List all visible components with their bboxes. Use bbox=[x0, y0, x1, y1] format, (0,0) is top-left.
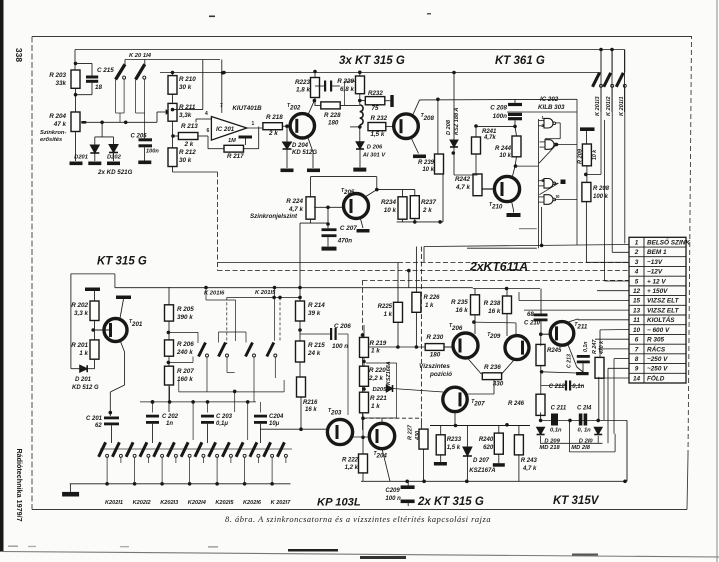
svg-text:7: 7 bbox=[635, 346, 639, 353]
svg-text:R 201: R 201 bbox=[71, 342, 88, 349]
svg-text:6,8 k: 6,8 k bbox=[340, 86, 355, 93]
svg-text:68: 68 bbox=[527, 312, 534, 318]
svg-text:+ 150V: + 150V bbox=[647, 288, 668, 295]
svg-text:D205: D205 bbox=[373, 387, 388, 393]
svg-text:12: 12 bbox=[633, 288, 641, 295]
svg-text:4,7 k: 4,7 k bbox=[288, 206, 304, 213]
svg-text:180: 180 bbox=[430, 352, 441, 359]
svg-text:R 212: R 212 bbox=[179, 149, 196, 156]
svg-text:2x KD 521G: 2x KD 521G bbox=[97, 169, 133, 176]
svg-text:VIZSZ ELT: VIZSZ ELT bbox=[647, 307, 680, 314]
svg-text:10 k: 10 k bbox=[422, 167, 434, 173]
svg-text:2: 2 bbox=[634, 249, 639, 256]
svg-text:1: 1 bbox=[635, 239, 639, 246]
svg-text:208: 208 bbox=[423, 115, 435, 122]
svg-text:R232: R232 bbox=[368, 90, 383, 97]
svg-text:C 211: C 211 bbox=[551, 406, 567, 412]
svg-text:KSZ167A: KSZ167A bbox=[469, 468, 495, 474]
svg-text:2 k: 2 k bbox=[422, 207, 432, 214]
svg-text:R 244: R 244 bbox=[495, 146, 512, 152]
svg-text:R245: R245 bbox=[547, 348, 562, 354]
svg-text:R 305: R 305 bbox=[647, 337, 664, 344]
svg-text:100n: 100n bbox=[146, 149, 159, 155]
svg-text:620: 620 bbox=[483, 445, 494, 451]
svg-text:16 k: 16 k bbox=[456, 307, 469, 314]
svg-text:Szinkronjelszint: Szinkronjelszint bbox=[250, 213, 298, 220]
svg-text:R225: R225 bbox=[378, 304, 393, 310]
svg-text:K202I3: K202I3 bbox=[160, 500, 179, 506]
svg-text:R 230: R 230 bbox=[426, 334, 443, 341]
svg-text:3: 3 bbox=[635, 259, 639, 266]
svg-text:33k: 33k bbox=[55, 80, 66, 87]
svg-text:R234: R234 bbox=[381, 199, 397, 206]
svg-text:AI 301 V: AI 301 V bbox=[362, 153, 387, 159]
svg-text:1,5 k: 1,5 k bbox=[447, 445, 461, 451]
svg-text:C 206: C 206 bbox=[334, 323, 351, 330]
svg-text:R242: R242 bbox=[455, 176, 471, 183]
svg-text:pozíció: pozíció bbox=[429, 371, 452, 378]
svg-text:10 k: 10 k bbox=[384, 207, 397, 214]
svg-text:K 201I2: K 201I2 bbox=[606, 96, 612, 116]
svg-text:C 201: C 201 bbox=[86, 416, 103, 422]
svg-text:KT 315V: KT 315V bbox=[553, 495, 600, 507]
svg-text:C209: C209 bbox=[385, 488, 400, 494]
svg-text:C 202: C 202 bbox=[162, 414, 179, 420]
svg-text:8. ábra. A szinkroncsatorna és: 8. ábra. A szinkroncsatorna és a vízszin… bbox=[225, 515, 491, 524]
svg-text:207: 207 bbox=[473, 401, 485, 408]
svg-text:R 203: R 203 bbox=[49, 72, 66, 79]
svg-text:240 k: 240 k bbox=[176, 349, 193, 356]
svg-text:24 k: 24 k bbox=[307, 350, 321, 357]
svg-text:R 220: R 220 bbox=[369, 367, 386, 374]
svg-text:KD 512G: KD 512G bbox=[292, 150, 317, 156]
svg-text:1: 1 bbox=[252, 121, 255, 127]
svg-text:R 214: R 214 bbox=[308, 302, 325, 309]
svg-text:1n: 1n bbox=[166, 421, 173, 427]
svg-text:~13V: ~13V bbox=[647, 259, 663, 266]
svg-text:8: 8 bbox=[635, 356, 639, 363]
svg-text:14: 14 bbox=[633, 375, 641, 382]
svg-text:160 k: 160 k bbox=[177, 376, 193, 383]
svg-text:0,1n: 0,1n bbox=[583, 342, 589, 352]
svg-text:9: 9 bbox=[635, 366, 639, 373]
svg-text:R223: R223 bbox=[295, 79, 311, 86]
svg-text:15: 15 bbox=[633, 298, 641, 305]
svg-text:6: 6 bbox=[635, 337, 639, 344]
svg-text:330: 330 bbox=[493, 381, 504, 388]
svg-text:4: 4 bbox=[205, 111, 208, 117]
svg-text:30 k: 30 k bbox=[179, 84, 192, 91]
svg-text:erősítés: erősítés bbox=[40, 137, 63, 143]
svg-text:1,2 k: 1,2 k bbox=[345, 465, 359, 471]
svg-text:FÖLD: FÖLD bbox=[647, 373, 665, 382]
svg-text:R 213: R 213 bbox=[181, 123, 198, 130]
svg-text:2 k: 2 k bbox=[184, 141, 194, 148]
svg-text:R 224: R 224 bbox=[286, 198, 303, 205]
svg-text:1 k: 1 k bbox=[425, 303, 434, 309]
svg-text:R 207: R 207 bbox=[177, 368, 194, 375]
svg-text:3,3k: 3,3k bbox=[179, 112, 192, 119]
svg-text:C 215: C 215 bbox=[97, 67, 114, 74]
svg-text:202: 202 bbox=[289, 105, 301, 112]
svg-text:D 208: D 208 bbox=[446, 119, 452, 135]
svg-text:VIZSZ ELT: VIZSZ ELT bbox=[647, 298, 680, 305]
svg-text:2,2 k: 2,2 k bbox=[368, 375, 384, 382]
svg-text:R 238: R 238 bbox=[484, 300, 501, 307]
svg-text:1 k: 1 k bbox=[371, 348, 380, 355]
svg-text:KT 315 G: KT 315 G bbox=[97, 256, 147, 268]
svg-text:C 203: C 203 bbox=[216, 414, 233, 420]
svg-text:4,7 k: 4,7 k bbox=[522, 466, 537, 472]
svg-text:R 226: R 226 bbox=[424, 295, 441, 301]
svg-text:180: 180 bbox=[328, 120, 339, 127]
svg-text:KSZ168A: KSZ168A bbox=[386, 361, 392, 385]
svg-text:211: 211 bbox=[576, 324, 587, 331]
svg-text:R 235: R 235 bbox=[451, 299, 468, 306]
svg-text:KD 512 G: KD 512 G bbox=[72, 385, 99, 391]
svg-text:D201: D201 bbox=[74, 155, 88, 161]
svg-text:16 k: 16 k bbox=[488, 308, 501, 315]
svg-text:R 218: R 218 bbox=[266, 114, 283, 121]
svg-text:R 232: R 232 bbox=[371, 115, 388, 122]
svg-text:1,5 k: 1,5 k bbox=[371, 131, 385, 138]
svg-text:2 k: 2 k bbox=[268, 130, 278, 137]
svg-text:R 208: R 208 bbox=[593, 186, 610, 192]
svg-text:470n: 470n bbox=[337, 238, 353, 245]
svg-text:100 k: 100 k bbox=[593, 194, 609, 200]
svg-text:Vízszintes: Vízszintes bbox=[419, 363, 450, 370]
svg-text:1M: 1M bbox=[228, 138, 236, 144]
svg-text:204: 204 bbox=[376, 453, 388, 460]
svg-text:K 202I7: K 202I7 bbox=[271, 500, 291, 506]
svg-text:R 243: R 243 bbox=[521, 458, 538, 464]
svg-text:KP 103L: KP 103L bbox=[317, 497, 361, 509]
svg-text:KIOLTÁS: KIOLTÁS bbox=[647, 315, 675, 324]
svg-text:3x KT 315 G: 3x KT 315 G bbox=[339, 55, 405, 67]
svg-text:K 201I5: K 201I5 bbox=[255, 290, 276, 296]
svg-text:100 n: 100 n bbox=[385, 496, 401, 502]
svg-text:D 2I0: D 2I0 bbox=[579, 439, 594, 445]
svg-text:1,8 k: 1,8 k bbox=[296, 87, 311, 94]
svg-text:3,3 k: 3,3 k bbox=[74, 310, 89, 317]
svg-text:R240: R240 bbox=[479, 437, 494, 443]
svg-text:4,7k: 4,7k bbox=[483, 135, 496, 141]
svg-text:RÁCS: RÁCS bbox=[647, 344, 666, 353]
svg-text:10 k: 10 k bbox=[499, 153, 511, 159]
svg-text:K 201I1: K 201I1 bbox=[619, 96, 625, 116]
svg-text:D 207: D 207 bbox=[473, 458, 490, 464]
svg-text:~250 V: ~250 V bbox=[647, 366, 668, 373]
svg-text:0,1n: 0,1n bbox=[572, 384, 584, 390]
svg-text:BELSŐ SZINK: BELSŐ SZINK bbox=[647, 237, 690, 246]
svg-text:C 208: C 208 bbox=[490, 105, 507, 112]
svg-text:1 k: 1 k bbox=[384, 312, 393, 318]
svg-text:C 207: C 207 bbox=[340, 225, 357, 232]
svg-text:Szinkron-: Szinkron- bbox=[40, 130, 66, 136]
svg-text:47 k: 47 k bbox=[53, 121, 67, 128]
svg-text:30 k: 30 k bbox=[179, 157, 192, 164]
svg-text:K202I2: K202I2 bbox=[133, 500, 152, 506]
svg-text:R 205: R 205 bbox=[177, 306, 194, 313]
svg-text:62: 62 bbox=[95, 423, 102, 429]
svg-text:4,7 k: 4,7 k bbox=[455, 184, 471, 191]
svg-text:D 209: D 209 bbox=[544, 439, 560, 445]
svg-text:K202I4: K202I4 bbox=[188, 500, 207, 506]
svg-text:R 228: R 228 bbox=[324, 112, 341, 119]
svg-text:MD 218: MD 218 bbox=[539, 445, 560, 451]
svg-text:R 229: R 229 bbox=[337, 78, 354, 85]
svg-text:R237: R237 bbox=[421, 199, 437, 206]
svg-text:D 204: D 204 bbox=[292, 143, 309, 149]
svg-text:R 209: R 209 bbox=[578, 148, 584, 164]
svg-text:KT 361 G: KT 361 G bbox=[495, 55, 545, 67]
svg-text:100 n: 100 n bbox=[332, 343, 348, 350]
svg-text:−12V: −12V bbox=[647, 269, 663, 276]
svg-text:R233: R233 bbox=[447, 437, 462, 443]
svg-text:C 205: C 205 bbox=[131, 134, 148, 140]
svg-text:338: 338 bbox=[14, 48, 24, 62]
svg-text:203: 203 bbox=[330, 410, 342, 417]
svg-text:0,1n: 0,1n bbox=[550, 428, 562, 434]
svg-text:11: 11 bbox=[633, 317, 640, 324]
svg-text:IC 202: IC 202 bbox=[540, 96, 559, 103]
svg-text:KSZ 188 A: KSZ 188 A bbox=[454, 108, 460, 135]
svg-text:KIUT401B: KIUT401B bbox=[232, 105, 262, 112]
svg-text:205: 205 bbox=[343, 189, 355, 196]
svg-text:206: 206 bbox=[451, 325, 463, 332]
svg-text:210: 210 bbox=[491, 204, 503, 211]
svg-text:1 k: 1 k bbox=[371, 403, 380, 410]
svg-text:R241: R241 bbox=[482, 129, 497, 135]
svg-text:C 212: C 212 bbox=[549, 384, 566, 390]
svg-text:I0: I0 bbox=[556, 194, 560, 199]
svg-text:R 221: R 221 bbox=[370, 395, 387, 402]
svg-text:1 k: 1 k bbox=[79, 350, 88, 357]
svg-text:18: 18 bbox=[95, 84, 103, 91]
svg-text:100n: 100n bbox=[493, 113, 508, 120]
svg-text:K 201I3: K 201I3 bbox=[595, 96, 601, 116]
svg-text:R 215: R 215 bbox=[308, 342, 325, 349]
svg-text:10μ: 10μ bbox=[269, 421, 280, 427]
svg-text:+ 12 V: + 12 V bbox=[647, 278, 666, 285]
svg-text:C 213: C 213 bbox=[567, 354, 573, 368]
svg-text:10: 10 bbox=[633, 327, 641, 334]
svg-text:C 2I4: C 2I4 bbox=[577, 406, 592, 412]
svg-text:16 k: 16 k bbox=[305, 407, 317, 413]
svg-text:209: 209 bbox=[489, 333, 501, 340]
svg-text:R 210: R 210 bbox=[179, 76, 196, 83]
svg-text:13: 13 bbox=[633, 307, 641, 314]
svg-text:10 k: 10 k bbox=[592, 149, 598, 160]
svg-text:K 201I6: K 201I6 bbox=[204, 290, 225, 296]
svg-text:R 217: R 217 bbox=[227, 153, 244, 160]
svg-text:R 202: R 202 bbox=[71, 302, 88, 309]
svg-text:C 210: C 210 bbox=[524, 321, 541, 327]
svg-text:IC 201: IC 201 bbox=[216, 126, 235, 133]
svg-text:D202: D202 bbox=[107, 155, 122, 161]
svg-text:R 206: R 206 bbox=[177, 341, 194, 348]
svg-text:2xKT611A: 2xKT611A bbox=[469, 260, 528, 274]
svg-text:R 247: R 247 bbox=[592, 339, 598, 354]
svg-text:~250 V: ~250 V bbox=[647, 356, 668, 363]
svg-text:39 k: 39 k bbox=[308, 310, 321, 317]
svg-text:R 227: R 227 bbox=[408, 424, 414, 440]
svg-text:Rádiótechnika 1979/7: Rádiótechnika 1979/7 bbox=[15, 448, 24, 521]
svg-text:0, 1n: 0, 1n bbox=[578, 428, 592, 434]
svg-text:R 219: R 219 bbox=[370, 340, 387, 347]
svg-text:R 236: R 236 bbox=[484, 364, 501, 371]
svg-text:R 246: R 246 bbox=[508, 401, 525, 407]
svg-text:D 206: D 206 bbox=[367, 144, 383, 150]
svg-text:R216: R216 bbox=[303, 400, 318, 406]
svg-text:75: 75 bbox=[372, 105, 379, 112]
svg-text:2x KT 315 G: 2x KT 315 G bbox=[417, 496, 484, 508]
svg-text:6: 6 bbox=[207, 128, 210, 134]
svg-text:R 204: R 204 bbox=[49, 113, 66, 120]
svg-text:MD 2I8: MD 2I8 bbox=[571, 445, 590, 451]
svg-text:4: 4 bbox=[634, 269, 639, 276]
svg-text:5: 5 bbox=[635, 278, 639, 285]
svg-text:K202I6: K202I6 bbox=[243, 500, 262, 506]
svg-text:K202I1: K202I1 bbox=[105, 500, 123, 506]
svg-text:D 201: D 201 bbox=[75, 377, 92, 383]
svg-text:R 239: R 239 bbox=[418, 160, 435, 166]
svg-text:K202I5: K202I5 bbox=[215, 500, 234, 506]
svg-text:C204: C204 bbox=[269, 414, 284, 420]
svg-text:BEM 1: BEM 1 bbox=[647, 249, 667, 256]
svg-text:KILB 303: KILB 303 bbox=[538, 104, 565, 111]
svg-text:K 20 1I4: K 20 1I4 bbox=[129, 53, 152, 59]
svg-text:− 600 V: − 600 V bbox=[647, 327, 670, 334]
svg-text:R 222: R 222 bbox=[342, 458, 359, 464]
svg-text:0,1μ: 0,1μ bbox=[216, 421, 228, 427]
svg-text:390 k: 390 k bbox=[177, 314, 193, 321]
svg-text:201: 201 bbox=[131, 321, 143, 328]
